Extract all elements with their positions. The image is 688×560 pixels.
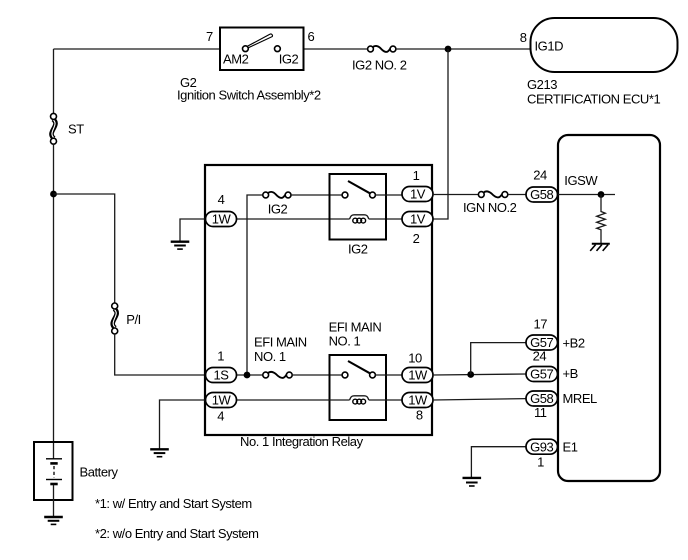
svg-text:17: 17	[534, 317, 548, 332]
connector 1S pin 1	[206, 349, 237, 383]
svg-text:1W: 1W	[408, 368, 428, 383]
ground battery	[44, 517, 63, 524]
connector 1W pin 10	[402, 351, 433, 383]
junction node at IG1D branch	[445, 46, 452, 53]
svg-text:NO. 1: NO. 1	[254, 349, 286, 364]
relay EFI MAIN switch	[342, 361, 375, 378]
wire 1W pin4 top to ground	[180, 219, 206, 242]
resistor IGSW pull-down	[597, 195, 606, 244]
svg-text:1: 1	[537, 455, 544, 470]
svg-text:E1: E1	[563, 440, 578, 455]
svg-text:1: 1	[413, 168, 420, 183]
svg-text:4: 4	[217, 409, 224, 424]
svg-text:IG2: IG2	[268, 202, 288, 217]
wire coil row bottom	[237, 399, 350, 401]
wire 1W pin8 to G58 MREL	[433, 399, 526, 400]
fuse IGN NO.2	[463, 191, 517, 215]
svg-text:4: 4	[218, 192, 225, 207]
connector 1W pin 8	[402, 393, 433, 423]
junction node battery branch	[50, 191, 57, 198]
relay IG2 inner box	[330, 174, 387, 240]
connector 1V pin 2	[402, 212, 433, 247]
svg-text:*2: w/o Entry and Start System: *2: w/o Entry and Start System	[95, 526, 259, 541]
wire relay switch to 1V pin1	[375, 194, 402, 196]
fusible link P/I	[112, 303, 141, 334]
svg-text:1V: 1V	[410, 187, 426, 202]
svg-text:1W: 1W	[212, 212, 232, 227]
connector G57 pin 24 (+B)	[526, 349, 578, 382]
wire coil row top (1W pin4 to 1V pin2)	[237, 218, 350, 220]
wire IG1D branch down to 1V pin 2	[433, 49, 448, 219]
wire fuse to IG1D	[396, 48, 531, 50]
connector G58 pin 11 (MREL)	[526, 391, 597, 420]
svg-text:MREL: MREL	[563, 391, 598, 406]
svg-text:24: 24	[533, 167, 547, 182]
wire main left vertical (battery riser)	[53, 49, 55, 114]
switch contact IG2	[275, 46, 281, 52]
wire 1W pin4 bottom to ground	[160, 400, 206, 449]
svg-text:2: 2	[413, 231, 420, 246]
relay EFI MAIN label	[329, 319, 382, 348]
junction node +B branch	[467, 371, 474, 378]
wire branch to G57 +B2	[471, 343, 526, 375]
wire EFI fuse to relay switch	[292, 374, 342, 376]
wire E1 ground to G93	[471, 447, 526, 477]
wire P/I to 1S	[115, 334, 206, 375]
relay EFI MAIN inner box	[330, 355, 387, 420]
ground IGSW internal (chassis)	[590, 244, 610, 251]
wire 1V pin1 to IGN NO.2 fuse	[433, 194, 478, 196]
connector 1W pin 4 (top)	[206, 192, 237, 227]
svg-text:Battery: Battery	[80, 464, 119, 479]
svg-text:7: 7	[206, 29, 213, 44]
wire 1W pin10 to G57 +B	[433, 374, 526, 375]
svg-text:24: 24	[533, 349, 547, 364]
connector 1W pin 4 (bottom)	[206, 393, 237, 424]
svg-text:1: 1	[217, 349, 224, 364]
fusible link ST	[51, 113, 85, 144]
svg-text:ST: ST	[68, 122, 84, 137]
main ECU box	[558, 135, 660, 481]
svg-text:8: 8	[416, 408, 423, 423]
wire riser IG2 fuse feed	[247, 195, 263, 375]
svg-text:EFI MAIN: EFI MAIN	[329, 319, 382, 334]
svg-text:IGN NO.2: IGN NO.2	[463, 200, 517, 215]
svg-text:CERTIFICATION ECU*1: CERTIFICATION ECU*1	[527, 92, 660, 107]
svg-text:IGSW: IGSW	[564, 173, 598, 188]
wire relay switch to 1W pin10	[375, 374, 402, 376]
connector 1V pin 1	[402, 168, 433, 202]
battery	[34, 442, 118, 500]
svg-text:1W: 1W	[408, 393, 428, 408]
wire branch to P/I	[54, 194, 115, 303]
ground relay bottom-left	[150, 449, 169, 456]
svg-text:8: 8	[520, 30, 527, 45]
wire switch to fuse IG2 NO.2	[304, 48, 368, 50]
svg-text:10: 10	[408, 351, 422, 366]
svg-text:No. 1 Integration Relay: No. 1 Integration Relay	[240, 434, 364, 449]
svg-text:+B: +B	[563, 366, 578, 381]
svg-text:EFI MAIN: EFI MAIN	[254, 335, 307, 350]
fuse EFI MAIN NO. 1	[254, 335, 307, 378]
junction node IGSW resistor	[598, 191, 605, 198]
wire IGSW internal	[558, 194, 615, 196]
fuse IG2 (relay)	[263, 192, 291, 217]
svg-text:11: 11	[534, 405, 547, 420]
svg-text:G213: G213	[527, 77, 557, 92]
svg-text:IG2: IG2	[279, 52, 299, 67]
ground relay top-left	[171, 242, 190, 249]
svg-text:AM2: AM2	[223, 52, 249, 67]
label G2 Ignition Switch Assembly	[177, 75, 321, 103]
relay IG2 switch	[342, 181, 375, 198]
svg-text:G57: G57	[530, 367, 553, 382]
svg-text:1S: 1S	[213, 368, 229, 383]
svg-text:*1: w/ Entry and Start System: *1: w/ Entry and Start System	[95, 496, 252, 511]
svg-text:G58: G58	[530, 187, 553, 202]
svg-text:1W: 1W	[212, 393, 232, 408]
svg-text:Ignition Switch Assembly*2: Ignition Switch Assembly*2	[177, 88, 321, 103]
relay EFI MAIN coil	[350, 396, 369, 404]
svg-text:IG2 NO. 2: IG2 NO. 2	[352, 58, 407, 73]
svg-text:IG1D: IG1D	[535, 39, 564, 54]
connector G57 pin 17 (+B2)	[526, 317, 585, 351]
wire fuse to G58	[508, 194, 526, 196]
wire battery to ground	[53, 485, 55, 517]
switch lever G2	[247, 34, 273, 48]
connector G93 pin 1 (E1)	[526, 439, 578, 469]
switch contact AM2	[243, 46, 249, 52]
junction node 1S	[244, 372, 251, 379]
svg-text:NO. 1: NO. 1	[329, 333, 361, 348]
ground E1	[463, 478, 482, 486]
svg-text:IG2: IG2	[348, 242, 368, 257]
svg-text:1V: 1V	[410, 212, 426, 227]
ignition switch assembly G2 box	[206, 28, 314, 71]
svg-text:P/I: P/I	[126, 312, 141, 327]
relay IG2 coil	[348, 215, 369, 257]
wire fuse IG2 to relay switch	[291, 194, 342, 196]
No. 1 Integration Relay box	[205, 165, 432, 449]
svg-text:+B2: +B2	[563, 335, 585, 350]
svg-text:6: 6	[308, 29, 315, 44]
wire 1S row to EFI fuse	[237, 374, 263, 376]
fuse IG2 NO. 2	[352, 46, 407, 73]
connector G58 pin 24 (IGSW)	[526, 167, 598, 202]
ECU IG1D box (G213 CERTIFICATION ECU)	[520, 18, 678, 107]
svg-text:G93: G93	[530, 439, 553, 454]
wire battery feed top horizontal	[54, 48, 221, 50]
wire ST to battery	[53, 144, 55, 459]
